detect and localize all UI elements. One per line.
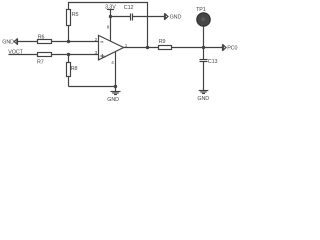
svg-text:TP1: TP1 <box>196 7 206 13</box>
wire op-amp output <box>124 47 159 49</box>
node V+ junction <box>109 15 112 18</box>
svg-text:R8: R8 <box>71 66 78 72</box>
ground symbol under C13 <box>199 91 209 94</box>
wire op-amp V+ pin 8 <box>110 17 112 42</box>
svg-text:4: 4 <box>111 60 114 65</box>
svg-text:R9: R9 <box>159 39 166 45</box>
svg-text:2: 2 <box>95 37 98 42</box>
wire top feedback rail <box>69 3 148 48</box>
power port GND right <box>165 13 169 20</box>
svg-text:C13: C13 <box>208 59 218 65</box>
svg-text:GND: GND <box>197 96 209 102</box>
wire C12 to GND port <box>133 16 165 18</box>
wire op-amp V- pin 4 <box>115 52 117 87</box>
resistor R8 <box>67 55 71 87</box>
wire 3.3V rail to C12 <box>111 16 131 18</box>
resistor R6 <box>38 40 52 44</box>
wire bottom ground rail <box>69 86 116 88</box>
svg-text:3: 3 <box>95 50 98 55</box>
node output junction feedback <box>146 46 149 49</box>
svg-text:GND: GND <box>107 97 119 103</box>
port GND left <box>14 39 17 45</box>
capacitor C12 <box>131 14 133 21</box>
svg-text:R5: R5 <box>72 12 79 18</box>
svg-text:R6: R6 <box>38 34 45 40</box>
svg-text:R7: R7 <box>37 60 44 66</box>
test point TP1 <box>197 13 210 48</box>
resistor R9 <box>159 46 172 50</box>
svg-text:VOCT: VOCT <box>8 50 23 56</box>
op-amp plus sign <box>100 54 104 58</box>
power port 3.3V <box>107 10 114 17</box>
svg-text:GND: GND <box>2 40 14 46</box>
port PC0 <box>223 44 227 51</box>
node top input junction <box>67 40 70 43</box>
node TP1/C13 junction <box>202 46 205 49</box>
svg-text:GND: GND <box>170 15 182 21</box>
node bottom input junction <box>67 53 70 56</box>
resistor R5 <box>67 10 71 42</box>
wire inverting input line <box>18 41 99 43</box>
svg-text:PC0: PC0 <box>227 46 237 52</box>
ground symbol under op-amp <box>111 87 121 95</box>
op-amp minus sign <box>100 41 103 43</box>
wire R9 to PC0 <box>172 47 223 49</box>
svg-text:3.3V: 3.3V <box>105 5 116 11</box>
svg-text:8: 8 <box>107 25 110 30</box>
capacitor C13 <box>200 48 208 91</box>
svg-text:C12: C12 <box>124 5 134 11</box>
op-amp U1 <box>99 35 124 60</box>
resistor R7 <box>38 53 52 57</box>
svg-text:1: 1 <box>125 43 128 48</box>
wire non-inverting input line <box>9 54 99 56</box>
node ground rail junction <box>114 85 117 88</box>
